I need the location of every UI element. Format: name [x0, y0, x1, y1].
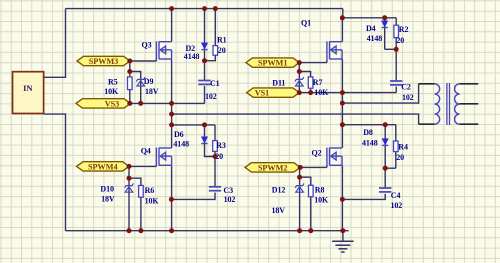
wire top rail left section — [66, 8, 343, 10]
wire D11 main vertical — [298, 63, 300, 93]
svg-text:R6: R6 — [145, 186, 155, 195]
wire R8 branch — [300, 177, 311, 231]
wire left vertical from IN bottom pin to bottom rail — [44, 114, 66, 231]
wire Q1 source down to Q2 drain — [341, 59, 343, 148]
svg-text:10K: 10K — [314, 88, 329, 97]
wire R5 main vertical — [129, 61, 131, 103]
wire junction to C4 and down-left to Q2 source line — [384, 168, 386, 188]
wire D4 vertical — [384, 18, 386, 50]
wire D2/R1 junction down to C1 and to VS3 line — [204, 61, 206, 81]
svg-text:D4: D4 — [366, 24, 376, 33]
resistor R7 — [308, 77, 313, 88]
junction dots bottom rail — [127, 228, 132, 233]
transformer T1 primary winding — [435, 84, 440, 124]
transformer primary pin top — [419, 83, 435, 85]
wire SPWM3 gate line to Q3 — [130, 60, 156, 62]
svg-text:20: 20 — [396, 36, 404, 45]
wire bottom rail — [66, 230, 349, 232]
diode D6 — [201, 137, 207, 143]
svg-text:R8: R8 — [315, 186, 325, 195]
wire D9 branch — [130, 72, 141, 104]
port SPWM3 — [77, 56, 130, 65]
port SPWM4 — [77, 162, 129, 171]
svg-text:Q4: Q4 — [141, 146, 151, 155]
wire D4 to junction with R2 — [385, 48, 397, 50]
resistor R4 — [394, 141, 399, 152]
zener diode D9 — [137, 81, 145, 87]
svg-text:4148: 4148 — [184, 52, 200, 61]
wire Q4 source to bottom rail — [171, 166, 173, 231]
resistor R5 — [128, 77, 133, 90]
junction dot R3/D6 — [213, 154, 218, 159]
junction dot D2/R1 — [202, 58, 207, 63]
junction dots top rail right section — [340, 15, 345, 20]
transistor Q1 — [327, 41, 342, 59]
svg-text:10K: 10K — [145, 196, 160, 205]
svg-text:SPWM1: SPWM1 — [258, 59, 288, 68]
wire D10 main vertical — [128, 166, 130, 230]
wire Q1 drain to top rail — [341, 18, 343, 42]
diode D2 — [201, 43, 207, 49]
junction dots C3 C4 row — [169, 197, 174, 202]
svg-text:C1: C1 — [210, 79, 220, 88]
transformer T1 core — [446, 83, 448, 125]
resistor R3 — [213, 141, 218, 152]
wire R3 to junction to C3 — [214, 151, 216, 156]
wire snubber top right (Q2) — [342, 124, 395, 126]
svg-text:D10: D10 — [100, 184, 114, 193]
junction dot D4/R2 — [394, 47, 399, 52]
svg-text:VS3: VS3 — [105, 99, 120, 108]
transformer secondary pin bottom — [460, 123, 479, 125]
wire Q3 source down to Q4 drain — [171, 59, 173, 148]
svg-text:SPWM2: SPWM2 — [258, 163, 288, 172]
ground symbol — [342, 231, 344, 242]
svg-text:4148: 4148 — [367, 34, 383, 43]
wire snubber top left (Q4) — [172, 124, 215, 126]
wire D8 to junction — [384, 145, 386, 168]
junction dot rail C — [169, 112, 174, 117]
wire R2 vertical — [395, 18, 397, 25]
svg-text:10K: 10K — [104, 87, 119, 96]
junction dot rail B — [340, 101, 345, 106]
transformer secondary pin top — [460, 83, 479, 85]
svg-text:VS1: VS1 — [255, 89, 270, 98]
svg-text:SPWM3: SPWM3 — [89, 57, 119, 66]
wire SPWM1 gate line to Q1 — [299, 62, 327, 64]
wire rail B to transformer primary top — [342, 84, 418, 103]
svg-text:D12: D12 — [272, 186, 286, 195]
connector IN — [13, 72, 44, 114]
wire SPWM2 gate line to Q2 — [300, 166, 327, 168]
wire VS3 line — [130, 102, 205, 104]
wire D2 vertical — [204, 9, 206, 61]
svg-text:IN: IN — [23, 83, 33, 93]
wire R1 vertical and bottom jog — [205, 9, 216, 61]
wire D6 to junction — [205, 144, 216, 157]
wire SPWM4 gate line to Q4 — [129, 165, 156, 167]
transistor Q2 — [327, 148, 342, 166]
capacitor C4 — [379, 187, 391, 189]
svg-text:R7: R7 — [313, 78, 323, 87]
svg-text:18V: 18V — [272, 206, 286, 215]
transistor Q3 — [156, 41, 171, 59]
svg-text:102: 102 — [391, 201, 403, 210]
wire R4 to junction — [395, 152, 397, 169]
transformer primary pin bottom — [419, 123, 435, 125]
svg-text:Q1: Q1 — [301, 18, 311, 27]
wire mid rail C (left leg midpoint to transformer primary bottom) — [172, 114, 419, 124]
svg-text:102: 102 — [205, 92, 217, 101]
transformer secondary pin middle — [460, 103, 479, 105]
svg-text:C3: C3 — [223, 186, 233, 195]
junction dots VS3 row — [127, 101, 132, 106]
svg-text:102: 102 — [224, 195, 236, 204]
wire left vertical from IN top pin to top rail — [44, 9, 66, 78]
svg-text:4148: 4148 — [173, 140, 189, 149]
wire Q3 drain to top rail — [171, 9, 173, 42]
resistor R1 — [213, 46, 218, 56]
port VS3 — [76, 99, 131, 108]
diode D8 — [382, 139, 388, 145]
wire D6 vertical — [204, 125, 206, 143]
wire R2 junction down to C2 and to VS1 — [395, 49, 397, 81]
svg-text:D9: D9 — [144, 77, 154, 86]
svg-text:10K: 10K — [314, 196, 329, 205]
svg-text:SPWM4: SPWM4 — [88, 162, 118, 171]
capacitor C2 — [390, 80, 402, 82]
zener diode D12 — [296, 187, 304, 193]
svg-text:D6: D6 — [174, 130, 184, 139]
wire VS1 line to C2 lead — [299, 92, 396, 94]
svg-text:20: 20 — [396, 153, 404, 162]
wire D8 vertical — [384, 125, 386, 145]
svg-text:Q3: Q3 — [142, 40, 152, 49]
svg-text:C4: C4 — [391, 191, 401, 200]
capacitor C1 — [198, 80, 210, 82]
svg-text:R5: R5 — [108, 78, 118, 87]
svg-text:Q2: Q2 — [312, 148, 322, 157]
junction dots top rail — [169, 6, 174, 11]
wire R7 branch — [299, 72, 310, 93]
svg-text:D8: D8 — [363, 128, 373, 137]
svg-text:D11: D11 — [272, 78, 285, 87]
junction dots branch taps — [127, 69, 132, 74]
capacitor C3 — [209, 186, 221, 188]
resistor R6 — [139, 186, 144, 198]
transformer T1 secondary winding — [455, 84, 460, 124]
zener diode D10 — [125, 187, 133, 193]
svg-text:4148: 4148 — [362, 138, 378, 147]
wire D12 main vertical — [299, 167, 301, 230]
resistor R8 — [309, 185, 314, 196]
transistor Q4 — [156, 148, 171, 166]
svg-text:R2: R2 — [399, 25, 409, 34]
svg-text:R4: R4 — [398, 142, 408, 151]
svg-text:R1: R1 — [217, 36, 227, 45]
svg-text:18V: 18V — [101, 195, 115, 204]
svg-text:18V: 18V — [145, 87, 159, 96]
svg-text:20: 20 — [218, 46, 226, 55]
svg-text:102: 102 — [402, 93, 414, 102]
port VS1 — [247, 88, 300, 97]
junction dots snubber taps — [169, 122, 174, 127]
zener diode D11 — [296, 81, 304, 87]
svg-text:R3: R3 — [216, 141, 226, 150]
junction dot R4/D8 — [383, 166, 388, 171]
junction dots gate rows — [127, 59, 132, 64]
junction dots VS1 row — [297, 90, 302, 95]
port SPWM2 — [245, 163, 300, 172]
port SPWM1 — [246, 58, 299, 67]
wire R6 branch — [129, 178, 141, 231]
resistor R2 — [394, 25, 399, 38]
diode D4 — [382, 21, 388, 27]
wire C3 bottom to Q4 source line — [171, 193, 215, 200]
svg-text:C2: C2 — [401, 83, 411, 92]
wire top rail step down — [343, 9, 396, 18]
wire Q2 source to bottom rail — [341, 166, 343, 231]
